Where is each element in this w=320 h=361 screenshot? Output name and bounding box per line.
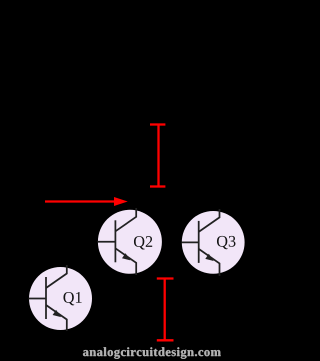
transistor Q2 base bar (114, 220, 116, 262)
transistor Q3 highlight circle (182, 211, 245, 274)
Q3 emitter arrowhead (205, 254, 214, 261)
transistor Q2 base lead wire (98, 241, 115, 243)
label Q1 (63, 292, 81, 305)
transistor Q1 emitter wire (46, 305, 67, 331)
transistor Q1 highlight circle (29, 267, 92, 330)
transistor Q3 collector wire (199, 209, 220, 232)
label Q3 (217, 236, 236, 249)
transistor Q2 emitter wire (115, 248, 136, 275)
input current arrow (red, pointing right toward Q2 collector node) (45, 197, 128, 206)
transistor Q3 emitter wire (199, 249, 220, 276)
transistor Q1 base lead wire (29, 298, 47, 300)
transistor Q1 base bar (45, 277, 47, 319)
transistor Q1 collector wire (46, 265, 67, 288)
transistor Q2 collector wire (115, 208, 136, 231)
voltage-drop indicator VE (red I-bar, bottom) (157, 279, 174, 341)
watermark analogcircuitdesign.com (83, 347, 221, 358)
transistor Q3 base lead wire (182, 241, 199, 243)
voltage-drop indicator VRC (red I-bar, top) (150, 125, 165, 187)
transistor Q3 base bar (198, 221, 200, 263)
transistor Q2 highlight circle (98, 210, 162, 274)
Q1 emitter arrowhead (53, 310, 62, 317)
Q2 emitter arrowhead (122, 253, 131, 260)
label Q2 (134, 236, 152, 249)
